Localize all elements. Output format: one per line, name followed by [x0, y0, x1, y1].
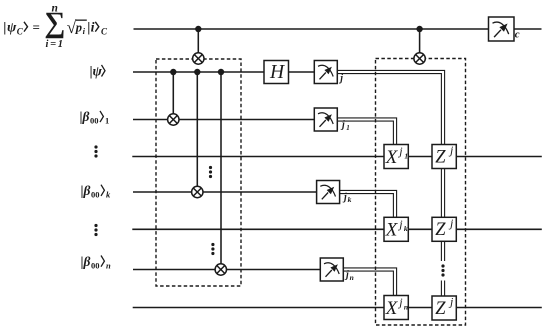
wire control drop q2 to CNOT target on q5: [196, 72, 198, 192]
CNOT target (otimes) on q3: [168, 114, 179, 125]
CNOT target (otimes) on q5: [192, 186, 203, 197]
wire q2 (psi): [133, 71, 325, 73]
measurement M_jk on q5: [317, 181, 352, 205]
label |beta00>_1 on q3: [80, 109, 110, 125]
classical double line: dots down to Z(q8): [441, 281, 444, 297]
control dot on q2 (CNOT k): [194, 69, 200, 75]
svg-text:1: 1: [404, 151, 408, 160]
svg-text:Z: Z: [435, 220, 446, 240]
control dot on q1 for right block: [416, 26, 422, 32]
label formula psi_c state sum: [3, 3, 108, 51]
svg-text:i: i: [91, 21, 95, 36]
svg-text:X: X: [385, 147, 399, 168]
gate Z^j on q6: [432, 216, 456, 242]
ellipsis dots label column (between q5 and q7): [94, 224, 97, 236]
gate X^j1 on q4: [384, 144, 408, 168]
svg-text:β: β: [83, 254, 91, 269]
svg-text:n: n: [404, 302, 408, 311]
svg-text:k: k: [348, 195, 352, 204]
svg-text:1: 1: [346, 124, 350, 132]
svg-text:Z: Z: [435, 299, 446, 319]
control dot on q1 for left block: [195, 26, 201, 32]
svg-text:C: C: [101, 27, 108, 37]
measurement M_jn on q7: [320, 258, 353, 282]
svg-text:β: β: [82, 109, 90, 124]
wire control drop q1 to left-box target: [197, 29, 199, 59]
svg-text:X: X: [385, 298, 399, 319]
label |beta00>_n on q7: [81, 254, 112, 271]
label |beta00>_k on q5: [81, 183, 112, 200]
dashed box: Bell-pair preparation block (controlled): [156, 59, 241, 286]
classical double line: Z(q6) down to dots: [441, 241, 444, 261]
ellipsis dots on Z chain (between q6 and q8): [441, 264, 444, 276]
wire control drop q2 to CNOT target on q3: [172, 72, 174, 120]
svg-text:ψ: ψ: [7, 21, 17, 36]
gate X^jn on q8: [384, 295, 408, 319]
classical double line: M_j to Z chain: [337, 70, 444, 144]
wire q5 (beta00_k): [133, 191, 328, 193]
svg-text:k: k: [404, 224, 408, 233]
ellipsis dots label column (between q3 and q5): [94, 145, 97, 157]
svg-text:c: c: [515, 29, 520, 41]
ellipsis dots inside left box (between q6 and q7): [211, 243, 214, 255]
gate Z^j on q8: [432, 295, 456, 321]
svg-text:n: n: [52, 3, 58, 15]
measurement M_j on q2: [314, 61, 343, 85]
gate X^jk on q6: [384, 217, 408, 241]
CNOT target (otimes) on q7: [215, 264, 226, 275]
svg-text:1: 1: [105, 116, 109, 126]
classical double line: M_j1 to X^j1: [337, 118, 396, 145]
wire q7 (beta00_n): [133, 269, 331, 271]
svg-text:i=1: i=1: [46, 39, 64, 50]
svg-text:00: 00: [91, 260, 100, 270]
wire q1 (top control register): [134, 28, 542, 30]
svg-text:Z: Z: [435, 147, 446, 167]
svg-text:p: p: [75, 21, 82, 35]
control dot on q2 (CNOT n): [218, 69, 224, 75]
wire q8 (partner of beta00_n): [133, 307, 542, 309]
label |psi> on q2: [90, 65, 106, 80]
classical double line: Z(q4) to Z(q6): [441, 169, 444, 218]
gate Z^j on q4: [432, 143, 456, 169]
svg-text:n: n: [106, 260, 111, 270]
svg-text:β: β: [83, 183, 91, 198]
svg-text:H: H: [269, 62, 285, 83]
wire control drop q1 to right-box target: [419, 29, 421, 59]
svg-text:|: |: [3, 21, 6, 36]
gate H on q2: [264, 61, 289, 84]
svg-text:C: C: [17, 27, 24, 37]
wire q3 (beta00_1): [133, 119, 325, 121]
classical double line: M_jk to X^jk: [340, 190, 397, 217]
svg-text:00: 00: [90, 116, 99, 126]
dashed box: conditional correction block (controlled): [376, 59, 466, 326]
wire q6 (dots row, partner of beta00_k): [132, 228, 542, 230]
measurement M_j1 on q3: [314, 108, 350, 132]
svg-text:X: X: [385, 220, 399, 241]
measurement M_c on q1: [489, 17, 520, 41]
control dot on q2 (CNOT 1): [170, 69, 176, 75]
classical double line: M_jn to X^jn: [343, 268, 396, 296]
wire control drop q2 to CNOT target on q7: [220, 72, 222, 270]
svg-text:00: 00: [91, 190, 100, 200]
ellipsis dots inside left box (between q4 and q5): [209, 166, 212, 178]
svg-text:n: n: [350, 273, 354, 282]
wire q4 (dots row, partner of beta00_1): [132, 156, 542, 158]
svg-text:ψ: ψ: [93, 65, 103, 80]
svg-text:=: =: [33, 20, 40, 35]
CNOT target (otimes) on left dashed box top: [193, 53, 204, 64]
CNOT target (otimes) on right dashed box top: [414, 53, 425, 64]
